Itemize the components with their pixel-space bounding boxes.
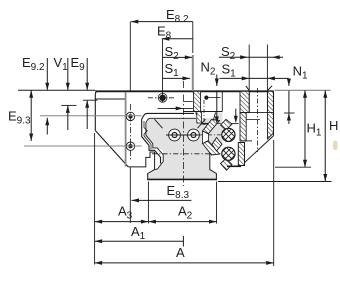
rail head circles (end view) (169, 129, 181, 141)
carriage top surface (95, 90, 273, 92)
countersink cone edges (246, 86, 249, 91)
V1 dimension (61, 58, 76, 130)
H/H1 right side (275, 89, 331, 91)
svg-text:A: A (176, 245, 185, 260)
section notch above rail (trapezoid) (196, 112, 216, 123)
yellow cursor artifact (333, 141, 338, 151)
left reference line (carriage top extended) (18, 89, 95, 91)
A dimension (95, 261, 274, 265)
lower hatch wall left (240, 113, 246, 141)
E9.2 dimension (45, 58, 49, 135)
rail head groove diagonals (155, 119, 163, 128)
rail bottom line (147, 179, 217, 181)
port vertical centerline (130, 104, 132, 161)
E8.2 dimension (130, 20, 193, 91)
lines above upper ball (184, 111, 223, 113)
svg-text:H: H (329, 118, 338, 133)
right clamp: upper hatch walls (240, 91, 249, 112)
ball row centerlines (199, 134, 222, 136)
S2 left dimension (163, 55, 193, 59)
H dimension (323, 90, 327, 181)
E9 dimension (83, 58, 98, 129)
carriage left edge with rounded corner (95, 91, 98, 130)
port on top face (159, 95, 165, 101)
rail cross-section body (gray) (146, 112, 223, 179)
right edge of carriage (273, 91, 275, 135)
carriage seal lip inner contour (146, 118, 196, 161)
port dot in section (204, 96, 208, 100)
A1 dimension (95, 236, 184, 247)
hole bottom line (240, 112, 274, 114)
carriage bottom left (128, 152, 154, 167)
left shoulder step line (95, 98, 126, 100)
carriage seal lip outer contour (142, 113, 194, 163)
E8 dimension (162, 37, 193, 102)
bottom extension lines (94, 133, 96, 265)
lip-rail mid contour (144, 121, 151, 149)
end plate edge (125, 92, 127, 167)
lube ports on left face (126, 112, 134, 120)
gray section boundary line (192, 22, 194, 53)
balls (218, 121, 240, 148)
rail centerline (182, 81, 184, 186)
gray horizontal port lines (40, 115, 142, 117)
E8.3 dimension (130, 168, 191, 224)
A3 / A2 dimension line (95, 220, 217, 224)
small arrow near ball top (232, 109, 239, 124)
S1 right dimension (220, 76, 289, 80)
S1 left dimension (163, 76, 191, 80)
rail neck left edge (155, 162, 164, 170)
hole edges (248, 45, 250, 113)
small arrow on roof line (170, 107, 177, 109)
H1 dimension (303, 90, 307, 167)
lower right wall (dark) (238, 143, 244, 166)
N2 dimension (215, 75, 219, 125)
carriage inner roof line (158, 107, 193, 109)
hole centerline (257, 88, 259, 152)
rail base outline (148, 152, 217, 179)
chamfer right (240, 136, 274, 167)
groove hatch chevron arms near balls (203, 120, 220, 134)
chamfer lower-left (95, 131, 128, 167)
N1 dimension (284, 79, 295, 125)
hatch block A (left hole section) (194, 91, 201, 111)
S2 right dimension (219, 55, 283, 59)
